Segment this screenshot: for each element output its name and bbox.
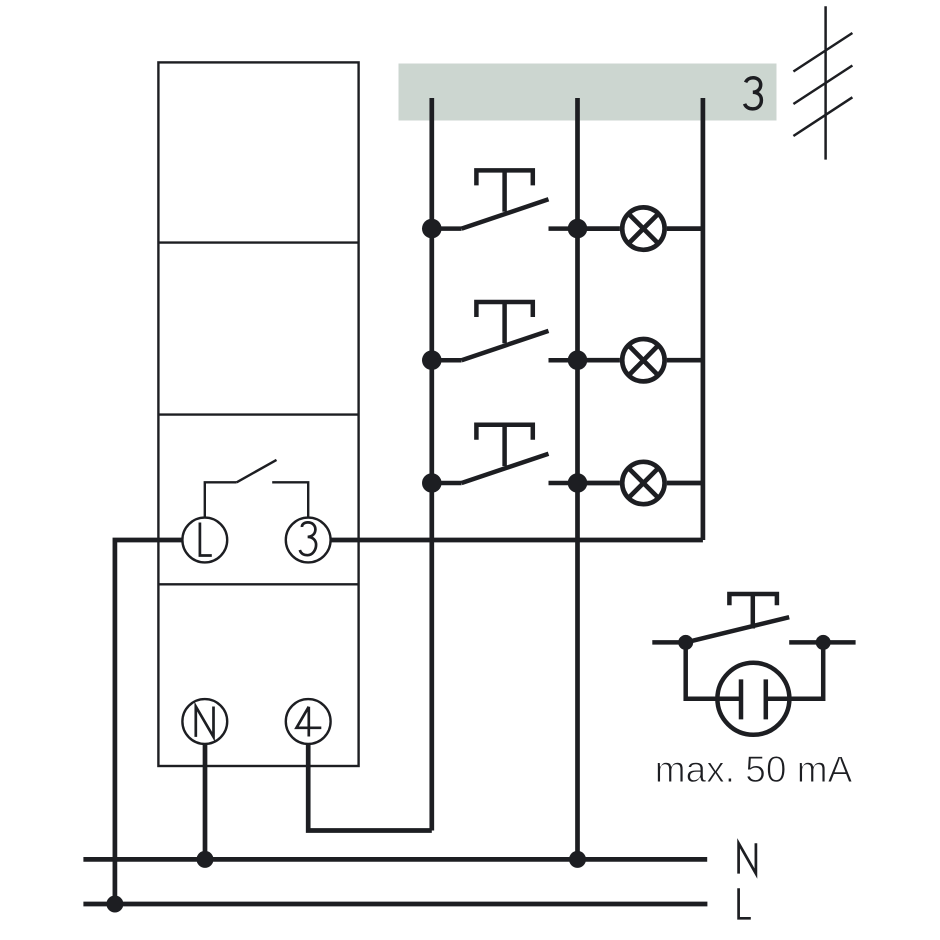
terminal L — [182, 518, 227, 563]
3-phase slash symbol — [793, 6, 852, 159]
lamp E1 — [578, 207, 703, 249]
wire from terminal L to L line — [115, 540, 182, 904]
wire: lamp return column — [701, 98, 706, 540]
node S4 right — [816, 635, 831, 650]
node S1 pivot — [422, 219, 442, 239]
illuminated push-button S4 — [652, 594, 855, 642]
relay contact between L and 3 — [205, 460, 308, 517]
terminal N — [182, 699, 227, 744]
push-button S3 — [432, 425, 578, 483]
node S2 out — [568, 350, 588, 370]
lamp E3 — [578, 462, 703, 504]
device outline — [158, 62, 358, 766]
wire from terminal 3 to lamp column — [331, 538, 703, 543]
node S4 left — [678, 635, 693, 650]
push-button S1 — [432, 170, 578, 228]
node S1 out — [568, 219, 588, 239]
node S3 pivot — [422, 473, 442, 493]
L line — [83, 902, 707, 907]
section divider 3 — [158, 583, 358, 585]
node N-wire junction — [197, 851, 214, 868]
terminal 3 — [286, 518, 331, 563]
wire: neutral column — [575, 98, 580, 859]
label N (line) — [739, 843, 756, 873]
node S2 pivot — [422, 350, 442, 370]
wire from terminal 4 to push-button column — [308, 744, 432, 830]
push-button S2 — [432, 302, 578, 360]
section divider 1 — [158, 241, 358, 243]
svg-text:max. 50 mA: max. 50 mA — [655, 749, 853, 790]
bus bar 3 (highlight band) — [399, 64, 777, 121]
label 3 (conductor count) — [745, 78, 762, 109]
node S3 out — [568, 473, 588, 493]
lamp E2 — [578, 339, 703, 381]
wire from terminal N to N line — [203, 744, 208, 859]
node L-wire junction — [106, 896, 123, 913]
glow lamp of S4 — [686, 642, 824, 734]
terminal 4 — [286, 699, 331, 744]
label L (line) — [739, 888, 751, 918]
N line — [83, 857, 707, 862]
wire: push-button column — [429, 98, 434, 831]
node neutral-column junction — [569, 851, 586, 868]
section divider 2 — [158, 413, 358, 415]
